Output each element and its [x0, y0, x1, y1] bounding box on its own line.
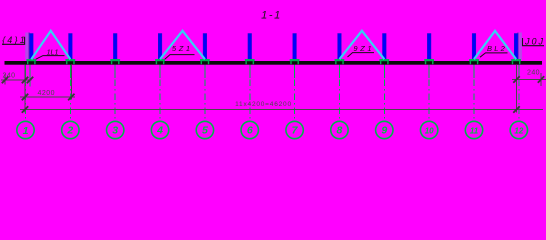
svg-text:12: 12 [514, 127, 523, 136]
svg-text:8: 8 [337, 125, 343, 137]
svg-text:11x4200=46200: 11x4200=46200 [235, 101, 292, 108]
svg-text:6: 6 [247, 125, 253, 137]
svg-text:2: 2 [66, 125, 73, 137]
svg-text:1-1: 1-1 [261, 10, 282, 22]
svg-text:11: 11 [470, 127, 479, 136]
svg-text:240: 240 [527, 70, 540, 77]
svg-text:240: 240 [3, 72, 16, 79]
svg-text:BL2: BL2 [487, 44, 507, 53]
svg-text:4: 4 [156, 125, 163, 137]
svg-text:{4}1: {4}1 [2, 35, 27, 45]
svg-text:1: 1 [23, 125, 29, 137]
svg-text:9: 9 [381, 125, 387, 137]
svg-text:10: 10 [425, 127, 434, 136]
svg-text:5Z1: 5Z1 [172, 44, 193, 53]
svg-text:J0J: J0J [524, 37, 545, 47]
svg-text:4200: 4200 [38, 90, 56, 97]
svg-text:9Z1: 9Z1 [353, 44, 374, 53]
svg-text:3: 3 [112, 125, 118, 137]
svg-text:5: 5 [202, 125, 208, 137]
